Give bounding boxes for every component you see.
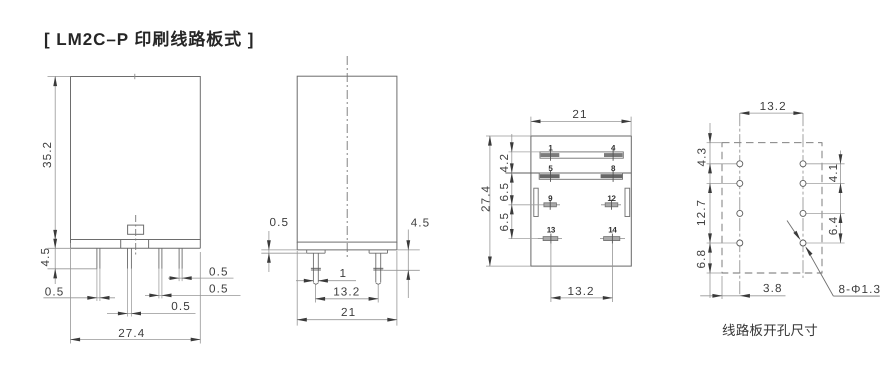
svg-text:6.8: 6.8 — [695, 249, 708, 269]
row 1 : pins 1,4 — [509, 151, 541, 153]
left pin (side view) — [307, 250, 325, 285]
svg-text:13.2: 13.2 — [760, 100, 787, 113]
svg-text:6.5: 6.5 — [498, 182, 511, 202]
svg-text:13: 13 — [547, 225, 556, 234]
top edge center tick — [134, 74, 136, 79]
svg-text:27.4: 27.4 — [118, 327, 145, 340]
relay body outline (front) — [71, 77, 201, 240]
left dimension line 4.3 / 12.7 / 6.8 — [709, 123, 711, 298]
flange separator left — [120, 240, 122, 249]
dimension 4.5 (view2 right) — [383, 230, 420, 299]
svg-text:27.4: 27.4 — [480, 185, 493, 212]
right side notch — [625, 188, 630, 216]
svg-text:0.5: 0.5 — [171, 300, 191, 313]
dimension 13.2 (view3 bottom) — [551, 244, 613, 302]
pin B (front view) — [127, 248, 129, 268]
left side notch — [534, 188, 538, 216]
row 2 : pins 5,8 — [506, 172, 632, 174]
svg-text:4: 4 — [611, 143, 616, 152]
svg-text:35.2: 35.2 — [41, 141, 54, 168]
bottom protrusion — [128, 225, 144, 234]
dimension 13.2 (view2) — [316, 285, 379, 303]
case outline (bottom view) — [531, 136, 631, 266]
svg-text:3.8: 3.8 — [763, 282, 783, 295]
svg-text:0.5: 0.5 — [270, 216, 290, 229]
dimension 0.5 center (pin B) — [107, 313, 196, 315]
flange separator right — [148, 240, 150, 249]
hole row extension lines — [707, 143, 845, 273]
dimension 21 (view3 top) — [531, 117, 631, 136]
svg-text:14: 14 — [608, 225, 617, 234]
pin C (front view) — [158, 248, 160, 268]
vertical centerline — [346, 56, 348, 257]
dimension 35.2 (view1 left) — [48, 77, 71, 240]
dimension 0.5 left (pin A) — [43, 297, 115, 299]
row 3 : pins 9,12 — [509, 204, 544, 206]
flange side edges — [70, 240, 72, 249]
row 4 : pins 13,14 — [509, 238, 544, 240]
svg-text:8: 8 — [611, 164, 616, 173]
svg-text:9: 9 — [548, 194, 553, 203]
column centerline 1 — [739, 113, 741, 296]
dimension 0.5 right upper (pin D) — [168, 277, 234, 279]
column centerline 2 — [802, 113, 804, 278]
dimension 13.2 (view4 top) — [740, 112, 803, 114]
dimension 0.5 right lower (pin C) — [145, 294, 241, 296]
PCB outline (dashed) — [722, 143, 822, 273]
svg-text:4.5: 4.5 — [39, 247, 52, 267]
pin A (front view) — [96, 248, 98, 268]
svg-text:12.7: 12.7 — [695, 199, 708, 226]
pin extension lines down to dimension lines — [97, 269, 182, 317]
svg-text:1: 1 — [548, 143, 553, 152]
dimension 1 (view2 pin width) — [296, 280, 356, 282]
right pin (side view) — [369, 250, 387, 285]
relay body outline (side) — [297, 76, 397, 242]
svg-text:13.2: 13.2 — [568, 285, 595, 298]
svg-text:12: 12 — [607, 194, 616, 203]
svg-text:21: 21 — [572, 108, 587, 121]
flange bottom line — [297, 249, 397, 251]
svg-text:6.5: 6.5 — [498, 212, 511, 232]
right dimension line 4.1 / 6.4 — [840, 151, 842, 244]
svg-text:4.1: 4.1 — [827, 163, 840, 183]
svg-text:6.4: 6.4 — [827, 216, 840, 236]
svg-text:5: 5 — [548, 164, 553, 173]
base flange bottom line — [71, 247, 201, 249]
svg-text:线路板开孔尺寸: 线路板开孔尺寸 — [722, 323, 818, 338]
svg-text:4.2: 4.2 — [498, 153, 511, 173]
dimension 21 (view2) — [297, 251, 397, 326]
pin D (front view) — [178, 248, 180, 268]
svg-text:8-Φ1.3: 8-Φ1.3 — [839, 283, 882, 296]
svg-text:0.5: 0.5 — [209, 283, 229, 296]
svg-text:0.5: 0.5 — [45, 286, 65, 299]
dimension 4.5 (view1 left) — [48, 240, 97, 285]
svg-text:1: 1 — [340, 267, 348, 280]
svg-text:4.5: 4.5 — [411, 217, 431, 230]
leader 8-Φ1.3 — [787, 221, 880, 297]
dimension chain 4.2 / 6.5 / 6.5 (view3 left) — [511, 134, 513, 239]
dimension 0.5 (view2 left) — [261, 231, 306, 272]
svg-text:21: 21 — [341, 306, 356, 319]
dimension 3.8 (view4 bottom) — [700, 276, 785, 299]
dimension 27.4 (view1 bottom) — [71, 243, 201, 344]
svg-text:[ LM2C–P 印刷线路板式 ]: [ LM2C–P 印刷线路板式 ] — [44, 30, 254, 49]
8 holes — [737, 161, 806, 246]
dimension 27.4 (view3 left) — [486, 136, 531, 266]
svg-text:13.2: 13.2 — [333, 286, 360, 299]
svg-text:4.3: 4.3 — [696, 147, 709, 167]
centerline of protrusion — [135, 215, 137, 255]
svg-text:0.5: 0.5 — [209, 265, 229, 278]
